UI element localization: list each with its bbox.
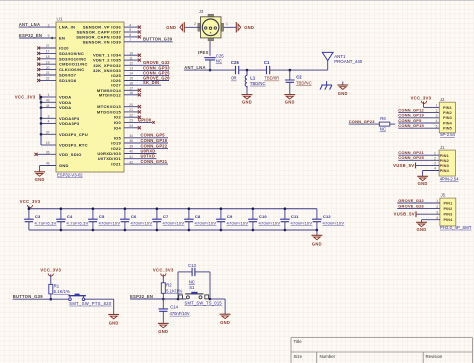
- wire net GROVE_G32: [124, 64, 169, 66]
- junction top rail at C6: [124, 207, 127, 210]
- connector J3 IPEX body: [198, 14, 224, 41]
- wire J5 pin4 to ground: [422, 219, 440, 221]
- capacitor C11: [284, 209, 286, 220]
- wire net GPIO0: [124, 121, 152, 123]
- svg-text:C1: C1: [264, 60, 270, 65]
- svg-text:CONN_GP21: CONN_GP21: [141, 159, 168, 164]
- svg-text:CMD/IO11/NC: CMD/IO11/NC: [59, 62, 88, 67]
- resistor R1: [49, 284, 53, 294]
- wire net BUTTON_G39: [124, 41, 173, 43]
- junction bottom rail at C5: [92, 229, 95, 232]
- junction bottom rail at C8: [188, 229, 191, 232]
- no-connect X pin 26: [34, 153, 37, 156]
- svg-text:PROANT_440: PROANT_440: [334, 59, 363, 64]
- wire stub pin 10: [124, 54, 138, 56]
- ground symbol left of J3: [183, 22, 185, 32]
- capacitor C25: [204, 58, 215, 60]
- wire stub pin 17: [40, 52, 57, 54]
- wire stub pin 20: [40, 69, 57, 71]
- no-connect X pin 21: [37, 73, 40, 76]
- no-connect X pin 18: [138, 93, 141, 96]
- resistor R2: [161, 283, 165, 294]
- wire R1 to BUTTON_G39 node: [50, 294, 52, 299]
- wire C14 to ground: [162, 311, 164, 323]
- ground symbol near antenna: [342, 82, 344, 86]
- junction BUTTON_G39 node: [50, 298, 53, 301]
- svg-text:IO4: IO4: [114, 125, 122, 130]
- capacitor C6: [124, 209, 126, 220]
- svg-text:5.1K/1%: 5.1K/1%: [54, 289, 70, 294]
- wire decoupling top rail: [29, 208, 317, 210]
- wire R6 right stub: [390, 123, 395, 125]
- wire stub pin 4: [41, 123, 56, 125]
- svg-text:SD2/IO9/NC: SD2/IO9/NC: [59, 51, 84, 56]
- svg-text:SMT_SW_TS_015: SMT_SW_TS_015: [185, 301, 223, 306]
- svg-text:CONN_GP23: CONN_GP23: [349, 119, 376, 124]
- wire stub pin 4: [124, 26, 138, 28]
- wire net SK_DIN: [124, 84, 161, 86]
- wire stub pin 43: [41, 101, 56, 103]
- svg-text:C7: C7: [163, 214, 169, 219]
- wire C26 to C1: [239, 69, 267, 71]
- svg-text:BUTTON_G39: BUTTON_G39: [143, 37, 173, 42]
- junction top rail at C8: [188, 207, 191, 210]
- ground symbol for J5 pin4: [416, 221, 427, 223]
- svg-text:CONN_GP19: CONN_GP19: [141, 138, 168, 143]
- svg-text:VCC_3V3: VCC_3V3: [40, 268, 61, 273]
- wire net GROVE_G26 to J5 pin2: [397, 208, 440, 210]
- wire stub pin 19: [40, 63, 57, 65]
- junction bottom rail at C4: [60, 229, 63, 232]
- svg-text:PIN1: PIN1: [443, 201, 452, 205]
- ground symbol below U1: [34, 171, 45, 173]
- junction VDD bus at pin 37: [40, 133, 43, 136]
- svg-text:VDDA3P3: VDDA3P3: [59, 121, 80, 126]
- svg-text:C5: C5: [99, 214, 105, 219]
- svg-text:2: 2: [194, 22, 196, 26]
- capacitor C4: [60, 209, 62, 220]
- wire stub pin 22: [124, 116, 138, 118]
- wire net CONN_GP12 to J2 pin2: [398, 112, 439, 114]
- no-connect X pin 11: [138, 59, 141, 62]
- wire net CONN_GP21 to J1 pin1: [398, 154, 439, 156]
- wire stub pin 19: [41, 144, 56, 146]
- wire stub pin 11: [124, 59, 138, 61]
- svg-text:VUSB_5V: VUSB_5V: [393, 163, 414, 168]
- wire decoupling bottom rail: [29, 229, 317, 231]
- svg-text:Size: Size: [294, 354, 303, 359]
- svg-text:470nF/10V: 470nF/10V: [323, 220, 345, 225]
- wire stub pin 3: [41, 117, 56, 119]
- wire R2 to ESP32_EN node: [162, 293, 164, 299]
- svg-text:TBD/NC: TBD/NC: [296, 81, 312, 86]
- wire stub pin 20: [124, 106, 138, 108]
- wire net GROVE_G26: [124, 80, 169, 82]
- svg-text:C26: C26: [231, 60, 240, 65]
- svg-text:GROVE_G26: GROVE_G26: [398, 204, 424, 209]
- svg-text:VCC_3V3: VCC_3V3: [411, 96, 432, 101]
- capacitor C26 (series): [236, 66, 239, 74]
- svg-text:470nF/10V: 470nF/10V: [131, 220, 153, 225]
- wire L1 to ground: [246, 89, 248, 95]
- wire net CONN_GP23: [349, 123, 380, 125]
- svg-text:GND: GND: [418, 181, 428, 186]
- svg-text:C9: C9: [227, 214, 233, 219]
- wire net CONN_GP19: [124, 142, 168, 144]
- svg-text:ESP32_EN: ESP32_EN: [19, 33, 42, 38]
- junction bottom rail at C9: [220, 229, 223, 232]
- junction top rail at C7: [156, 207, 159, 210]
- no-connect X pin 19: [37, 63, 40, 66]
- svg-text:470nF/10V: 470nF/10V: [259, 220, 281, 225]
- svg-text:PIN5: PIN5: [443, 127, 452, 131]
- svg-text:IO0: IO0: [114, 120, 122, 125]
- ground symbol for J1 pin4: [417, 175, 428, 177]
- svg-text:VDDA: VDDA: [59, 95, 71, 100]
- svg-text:GPIO0: GPIO0: [138, 117, 152, 122]
- svg-text:C3: C3: [35, 214, 41, 219]
- svg-text:C2: C2: [296, 75, 302, 80]
- pin 1 wire of J3 to ground (right): [224, 26, 237, 28]
- wire stub pin 5: [124, 31, 138, 33]
- IC U1 ESP32-V3-02 body: [56, 22, 124, 172]
- svg-text:PIN1: PIN1: [443, 106, 452, 110]
- svg-text:NC: NC: [189, 279, 195, 284]
- svg-text:ANT_LNA: ANT_LNA: [19, 22, 41, 27]
- svg-text:PIN4: PIN4: [443, 121, 453, 125]
- wire VCC_3V3 to J2 pin1: [423, 102, 425, 108]
- capacitor C13: [192, 268, 195, 276]
- junction VDD bus at pin 3: [40, 117, 43, 120]
- svg-text:470nF/10V: 470nF/10V: [99, 220, 121, 225]
- svg-text:5P-2.54: 5P-2.54: [440, 132, 455, 137]
- no-connect X pin 18: [37, 57, 40, 60]
- wire stub pin 37: [41, 133, 56, 135]
- dangling wire marker at GPIO0: [152, 121, 154, 123]
- wire C1 to antenna: [270, 69, 328, 71]
- svg-text:ESP32_EN: ESP32_EN: [130, 294, 153, 299]
- ground symbol right of J3: [235, 22, 237, 32]
- junction bottom rail at C10: [252, 229, 255, 232]
- svg-text:5.1K/1%: 5.1K/1%: [166, 289, 182, 294]
- svg-text:GROVE_G32: GROVE_G32: [398, 198, 424, 203]
- no-connect X pin 24: [138, 126, 141, 129]
- pin 2 wire of J3 to ground (left): [184, 26, 200, 28]
- wire ESP32_EN node down to C14: [162, 299, 164, 309]
- svg-text:IO19: IO19: [111, 141, 121, 146]
- svg-text:PIN2: PIN2: [443, 111, 452, 115]
- svg-text:VCC_3V3: VCC_3V3: [15, 95, 36, 100]
- svg-text:0R: 0R: [231, 76, 236, 81]
- junction VDD bus at pin 44: [40, 106, 43, 109]
- svg-text:GND: GND: [109, 320, 119, 325]
- no-connect X pin 17: [138, 89, 141, 92]
- junction C13 branch right: [209, 298, 212, 301]
- svg-text:CONN_GP25: CONN_GP25: [398, 155, 424, 160]
- svg-text:J3: J3: [199, 9, 204, 14]
- no-connect X pin 5: [138, 30, 141, 33]
- wire net ANT_LNA to pin 2: [19, 26, 56, 28]
- wire net U0TXD: [124, 158, 157, 160]
- svg-text:MTDI/IO12: MTDI/IO12: [99, 92, 122, 97]
- svg-text:VUSB_5V: VUSB_5V: [394, 212, 415, 217]
- svg-text:GND: GND: [220, 320, 230, 325]
- wire stub pin 6: [124, 36, 138, 38]
- wire net CONN_GP22: [124, 147, 168, 149]
- wire C2 to ground: [289, 82, 291, 94]
- junction bottom rail at C12 ground: [316, 229, 319, 232]
- inductor L1 (shunt): [245, 70, 247, 89]
- junction VDD bus at pin 1: [40, 96, 43, 99]
- svg-text:MTDO/IO15: MTDO/IO15: [97, 109, 122, 114]
- junction bottom rail at C6: [124, 229, 127, 232]
- no-connect X pin 22: [37, 79, 40, 82]
- wire S1 to ground: [210, 298, 225, 300]
- junction top rail at C5: [92, 207, 95, 210]
- svg-text:Number: Number: [320, 354, 336, 359]
- ground symbol S1: [220, 313, 231, 315]
- svg-text:PIN4: PIN4: [443, 218, 453, 222]
- svg-text:IPEX: IPEX: [198, 50, 209, 55]
- wire net ESP32_EN (reset circuit): [130, 298, 186, 300]
- svg-text:VDD_SDIO: VDD_SDIO: [59, 152, 82, 157]
- no-connect X pin 21: [138, 110, 141, 113]
- junction C13 branch left: [177, 298, 180, 301]
- svg-text:GND: GND: [242, 99, 252, 104]
- svg-text:U0TXD: U0TXD: [141, 154, 156, 159]
- wire pin 49 to ground: [40, 165, 56, 167]
- svg-text:GND: GND: [285, 99, 295, 104]
- svg-text:GND: GND: [417, 227, 427, 232]
- svg-text:ANT_LNA: ANT_LNA: [184, 65, 206, 70]
- wire stub pin 24: [124, 127, 138, 129]
- junction top rail at C11: [284, 207, 287, 210]
- svg-text:NC: NC: [216, 59, 222, 64]
- svg-text:4.7uF/6.3V: 4.7uF/6.3V: [35, 220, 57, 225]
- svg-text:GND: GND: [312, 241, 322, 246]
- junction top rail at C9: [220, 207, 223, 210]
- svg-text:U0TXD/IO1: U0TXD/IO1: [98, 156, 122, 161]
- wire VCC_3V3 to R2: [162, 274, 164, 283]
- wire net ESP32_EN to pin 9: [19, 37, 56, 39]
- connector J1 body: [439, 150, 455, 176]
- capacitor C7: [156, 209, 158, 220]
- no-connect X pin 17: [37, 52, 40, 55]
- junction ESP32_EN node: [162, 298, 165, 301]
- capacitor C8: [188, 209, 190, 220]
- wire net BUTTON_G39: [13, 298, 71, 300]
- wire VUSB_5V to J1 pin3: [416, 164, 440, 166]
- svg-text:PIN2: PIN2: [443, 207, 452, 211]
- svg-text:J5: J5: [441, 193, 446, 198]
- svg-text:470nF/10V: 470nF/10V: [291, 220, 313, 225]
- capacitor C1 (series): [267, 66, 270, 74]
- wire stub pin 18: [124, 94, 138, 96]
- svg-text:CONN_GP15: CONN_GP15: [398, 123, 424, 128]
- title block: [291, 338, 473, 363]
- ground symbol button circuit: [108, 314, 119, 316]
- svg-text:C12: C12: [323, 214, 332, 219]
- svg-text:IO20: IO20: [59, 46, 69, 51]
- svg-text:PIN4: PIN4: [440, 168, 450, 173]
- svg-text:SK_DIN: SK_DIN: [143, 80, 159, 85]
- wire stub pin 21: [40, 74, 57, 76]
- svg-text:CLK/IO6/NC: CLK/IO6/NC: [59, 67, 84, 72]
- wire J1 pin4 to ground: [423, 170, 440, 172]
- svg-text:VCC_3V3: VCC_3V3: [20, 199, 41, 204]
- svg-text:NC: NC: [380, 127, 386, 132]
- svg-text:GND: GND: [244, 25, 254, 30]
- capacitor C10: [252, 209, 254, 220]
- ground symbol decoupling rail: [312, 234, 323, 236]
- no-connect X pin 20: [138, 105, 141, 108]
- svg-text:EN: EN: [59, 36, 65, 41]
- wire net CONN_GP21: [124, 163, 168, 165]
- wire VCC_3V3 to rail: [28, 206, 30, 209]
- wire C25 to ANT_LNA line: [209, 60, 211, 70]
- junction bottom rail at C11: [284, 229, 287, 232]
- capacitor C9: [220, 209, 222, 220]
- svg-text:C13: C13: [188, 263, 196, 268]
- svg-text:IO21: IO21: [111, 162, 121, 167]
- no-connect X pin 10: [138, 54, 141, 57]
- svg-text:SENSOR_VN IO39: SENSOR_VN IO39: [83, 39, 122, 44]
- no-connect X pin 22: [138, 116, 141, 119]
- svg-text:PIN3: PIN3: [443, 116, 452, 120]
- junction VDD bus at pin 43: [40, 101, 43, 104]
- svg-text:BUTTON_G39: BUTTON_G39: [13, 294, 44, 299]
- no-connect X pin 6: [138, 35, 141, 38]
- svg-text:470nF/10V: 470nF/10V: [195, 220, 217, 225]
- junction C2 tap: [289, 69, 292, 72]
- svg-text:Revision: Revision: [426, 354, 443, 359]
- junction top rail at C4: [60, 207, 63, 210]
- connector J5 body: [440, 198, 456, 226]
- wire net ANT_LNA main line: [184, 69, 236, 71]
- wire net CONN_GP25: [124, 74, 169, 76]
- wire net CONN_GP33: [124, 69, 169, 71]
- junction VCC at C3: [28, 207, 31, 210]
- svg-text:C6: C6: [131, 214, 137, 219]
- svg-text:GND: GND: [338, 91, 348, 96]
- svg-text:VDDA: VDDA: [59, 105, 71, 110]
- svg-text:470nF/10V: 470nF/10V: [227, 220, 249, 225]
- resistor R6: [379, 122, 390, 126]
- junction bottom rail at C7: [156, 229, 159, 232]
- antenna ANT1: [327, 61, 329, 71]
- capacitor C12: [316, 209, 318, 220]
- capacitor C14: [159, 309, 169, 311]
- svg-text:VDD3P3_RTC: VDD3P3_RTC: [59, 143, 88, 148]
- svg-text:SD0/IO7: SD0/IO7: [59, 73, 77, 78]
- switch S1 SMT_SW_TS_015: [179, 295, 183, 299]
- capacitor C2 (shunt): [289, 70, 291, 80]
- no-connect X pin 4: [138, 26, 141, 29]
- wire net IPEX from J3 pin 3 down to C25: [209, 41, 211, 56]
- svg-text:C8: C8: [195, 214, 201, 219]
- svg-text:PH2.0_4P_SMT: PH2.0_4P_SMT: [440, 225, 472, 230]
- junction C25 / ANT_LNA: [209, 69, 212, 72]
- wire net U0RXD: [124, 153, 157, 155]
- svg-text:C10: C10: [259, 214, 268, 219]
- wire stub pin 44: [41, 107, 56, 109]
- wire net CONN_GP25 to J1 pin2: [398, 159, 439, 161]
- wire stub pin 18: [40, 58, 57, 60]
- svg-text:C14: C14: [170, 305, 178, 310]
- wire stub pin 27: [40, 47, 57, 49]
- junction VDD bus at pin 4: [40, 122, 43, 125]
- connector J2 body: [439, 102, 455, 133]
- svg-text:C4: C4: [67, 214, 73, 219]
- svg-text:R2: R2: [166, 282, 172, 287]
- wire switch to ground: [84, 298, 114, 300]
- svg-text:LNA_IN: LNA_IN: [59, 25, 75, 30]
- svg-text:Title: Title: [294, 339, 303, 344]
- wire net CONN_GP15 to J2 pin5: [398, 127, 439, 129]
- junction top rail at C10: [252, 207, 255, 210]
- svg-text:PIN3: PIN3: [443, 213, 452, 217]
- chassis ground near antenna: [320, 81, 332, 90]
- wire stub pin 17: [124, 89, 138, 91]
- svg-text:VDD3P3_CPU: VDD3P3_CPU: [59, 132, 88, 137]
- svg-text:GND: GND: [166, 25, 176, 30]
- svg-text:470nF/10V: 470nF/10V: [170, 311, 190, 316]
- wire net CONN_GP5 to J2 pin4: [398, 122, 439, 124]
- wire net GROVE_G32 to J5 pin1: [397, 202, 440, 204]
- wire net CONN_GP19 to J2 pin3: [398, 117, 439, 119]
- no-connect X pin 20: [37, 68, 40, 71]
- capacitor C5: [92, 209, 94, 220]
- svg-text:ESP32-V3-02: ESP32-V3-02: [57, 173, 83, 178]
- capacitor C3: [28, 209, 30, 220]
- wire VDD supply bus vertical: [40, 97, 42, 145]
- wire stub pin 22: [40, 79, 57, 81]
- wire stub pin 1: [41, 96, 56, 98]
- junction L1 tap: [246, 69, 249, 72]
- svg-text:U1: U1: [57, 17, 63, 22]
- svg-text:1: 1: [226, 22, 228, 26]
- wire rail to ground: [316, 230, 318, 235]
- wire VUSB_5V to J5 pin3: [416, 213, 440, 215]
- svg-text:SD3/IO10/NC: SD3/IO10/NC: [59, 56, 87, 61]
- wire stub pin 26: [37, 153, 56, 155]
- svg-text:C11: C11: [291, 214, 299, 219]
- svg-text:J2: J2: [440, 97, 445, 102]
- svg-text:VCC_3V3: VCC_3V3: [153, 268, 174, 273]
- wire C13 top branch: [177, 272, 179, 299]
- svg-text:TBD/0R: TBD/0R: [264, 76, 279, 81]
- ground symbol for C2: [284, 94, 295, 96]
- svg-text:TBD/NC: TBD/NC: [250, 81, 266, 86]
- wire VCC_3V3 to R1: [50, 274, 52, 284]
- svg-text:R1: R1: [54, 283, 60, 288]
- svg-text:S1: S1: [189, 285, 195, 290]
- svg-text:R6: R6: [380, 116, 386, 121]
- svg-text:4PIN-2.54: 4PIN-2.54: [440, 177, 460, 182]
- svg-text:GND: GND: [59, 163, 69, 168]
- switch SMT_SW_PTS_820: [68, 295, 86, 297]
- svg-text:470nF/10V: 470nF/10V: [163, 220, 185, 225]
- svg-text:GND: GND: [158, 329, 168, 334]
- svg-text:4.7uF/6.3V: 4.7uF/6.3V: [67, 220, 89, 225]
- wire stub pin 21: [124, 111, 138, 113]
- svg-text:SMT_SW_PTS_820: SMT_SW_PTS_820: [69, 301, 112, 306]
- svg-text:J1: J1: [440, 145, 445, 150]
- svg-text:GND: GND: [35, 177, 45, 182]
- svg-text:SD1/IO8: SD1/IO8: [59, 78, 77, 83]
- ground symbol C14: [158, 322, 169, 324]
- no-connect X pin 27: [37, 46, 40, 49]
